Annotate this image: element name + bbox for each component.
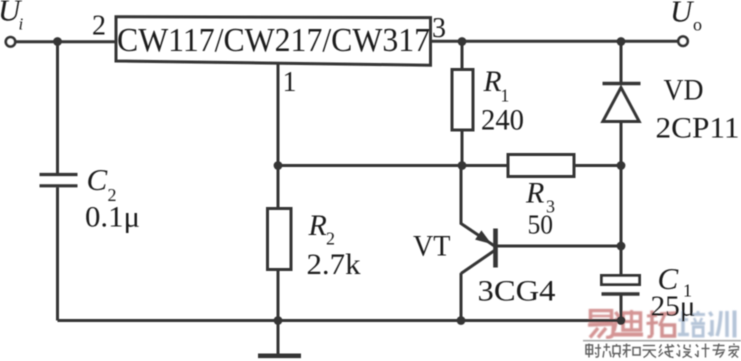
svg-text:C: C xyxy=(87,162,108,197)
wire base row xyxy=(495,245,621,248)
svg-text:U: U xyxy=(670,0,695,29)
wire input node down to C2 xyxy=(56,42,59,174)
svg-text:2CP11: 2CP11 xyxy=(656,112,740,145)
svg-text:2: 2 xyxy=(92,11,106,42)
node base row right xyxy=(617,242,626,251)
svg-text:0.1μ: 0.1μ xyxy=(85,201,140,234)
ground stem xyxy=(277,321,280,355)
wire collector down to bottom rail xyxy=(460,273,463,321)
svg-text:R: R xyxy=(483,66,502,98)
transistor VT emitter arrow xyxy=(475,230,491,244)
射 xyxy=(586,344,601,358)
ground xyxy=(258,353,301,358)
wire bottom rail xyxy=(58,319,622,322)
node VD top xyxy=(617,37,626,46)
迪 xyxy=(614,310,643,335)
svg-text:25μ: 25μ xyxy=(651,292,696,323)
node input junction xyxy=(53,37,62,46)
node C1 bottom xyxy=(617,316,626,325)
wire VD anode down through adjust row to base node xyxy=(620,122,623,276)
capacitor C1 negative plate xyxy=(602,292,640,296)
svg-text:CW117/CW217/CW317: CW117/CW217/CW317 xyxy=(117,22,430,59)
svg-text:VD: VD xyxy=(664,74,704,107)
svg-text:R: R xyxy=(525,177,544,210)
diode VD cathode bar xyxy=(603,82,641,86)
svg-text:1: 1 xyxy=(501,86,510,106)
node R1 top xyxy=(458,37,467,46)
svg-text:3: 3 xyxy=(432,13,446,44)
capacitor C2 xyxy=(40,175,78,186)
transistor VT emitter angled lead xyxy=(461,224,495,247)
wire C2 down to bottom rail xyxy=(56,187,59,320)
svg-text:R: R xyxy=(308,209,327,242)
output terminal Uo xyxy=(678,37,687,46)
设 xyxy=(677,345,693,358)
计 xyxy=(695,344,710,358)
diode VD lead from output rail xyxy=(620,42,623,84)
wire C1 to bottom rail xyxy=(620,294,623,321)
和 xyxy=(623,344,641,358)
专 xyxy=(713,344,726,358)
regulator U1 CW117/CW217/CW317 xyxy=(116,17,431,65)
svg-text:1: 1 xyxy=(283,67,297,98)
wire R2 to bottom rail xyxy=(277,270,280,321)
wire R1 bottom lead xyxy=(461,130,464,166)
node R3 right xyxy=(617,161,626,170)
transistor VT base bar xyxy=(493,229,498,268)
input terminal Ui xyxy=(6,37,15,46)
node R2 bottom xyxy=(274,316,283,325)
培 xyxy=(678,311,705,336)
wire pin 1 down to adjust node xyxy=(277,64,280,209)
resistor R3 xyxy=(508,155,574,177)
transistor VT emitter column xyxy=(460,166,463,225)
svg-text:i: i xyxy=(19,15,24,34)
resistor R2 xyxy=(268,209,292,270)
天 xyxy=(643,346,657,358)
线 xyxy=(659,344,675,358)
watermark subtitle 射频和天线设计专家 xyxy=(586,344,739,358)
node adjust xyxy=(274,161,283,170)
易 xyxy=(588,311,614,338)
训 xyxy=(709,311,735,338)
svg-text:o: o xyxy=(693,15,702,35)
svg-text:2.7k: 2.7k xyxy=(307,248,361,281)
wire adjust row xyxy=(278,164,508,167)
watermark logo 易迪拓培训 xyxy=(588,310,735,338)
node collector bottom xyxy=(457,316,466,325)
wire R1 top lead xyxy=(461,42,464,70)
wire input to regulator pin 2 xyxy=(15,40,116,43)
频 xyxy=(603,344,620,358)
svg-text:2: 2 xyxy=(326,229,335,249)
拓 xyxy=(647,311,677,337)
svg-text:240: 240 xyxy=(481,104,524,136)
svg-text:3CG4: 3CG4 xyxy=(478,275,556,308)
diode VD triangle xyxy=(603,88,639,122)
wire regulator pin 3 to output xyxy=(431,40,679,43)
wire R3 to VD column xyxy=(574,164,621,167)
node emitter column top xyxy=(458,161,467,170)
transistor VT collector angled lead xyxy=(461,251,495,274)
resistor R1 xyxy=(452,70,473,131)
watermark underline xyxy=(583,340,741,342)
svg-text:50: 50 xyxy=(528,210,554,240)
家 xyxy=(729,344,740,358)
svg-text:VT: VT xyxy=(413,230,451,263)
capacitor C1 positive plate xyxy=(602,276,640,285)
